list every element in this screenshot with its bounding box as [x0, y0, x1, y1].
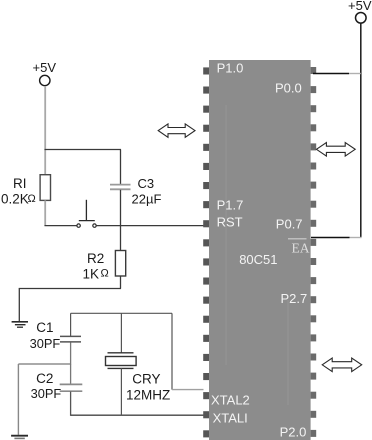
svg-text:XTAL2: XTAL2 [211, 393, 250, 408]
ground (crystal net, bottom) [11, 436, 28, 439]
bus arrow right upper (P0 port) [316, 143, 355, 157]
svg-text:0.2K: 0.2K [1, 192, 29, 207]
svg-text:CRY: CRY [132, 371, 160, 386]
svg-text:30PF: 30PF [30, 336, 61, 351]
IC right pins [311, 67, 317, 437]
wire crystal bottom vertical [120, 368, 122, 415]
wire ground drop vertical [18, 289, 20, 322]
svg-text:R2: R2 [87, 251, 104, 266]
wire P0.7 to VCC [311, 237, 362, 239]
resistor RI [40, 175, 50, 201]
svg-text:P1.0: P1.0 [217, 61, 244, 76]
IC U1 80C51 body [209, 60, 311, 440]
wire C1 bottom vertical [70, 343, 72, 365]
svg-text:Ω: Ω [28, 193, 36, 205]
resistor R2 [115, 251, 125, 277]
svg-text:+5V: +5V [33, 60, 57, 75]
bus arrow left (P1 port) [158, 124, 195, 137]
wire C2 bottom vertical [70, 392, 72, 416]
svg-text:RI: RI [13, 176, 27, 191]
pin label EA (active low) [288, 239, 310, 256]
svg-text:30PF: 30PF [31, 386, 62, 401]
svg-text:1K: 1K [83, 267, 100, 282]
svg-text:XTALI: XTALI [213, 411, 248, 426]
wire crystal top vertical [120, 313, 122, 353]
wire VCC right vertical [360, 23, 362, 238]
svg-text:C1: C1 [36, 320, 53, 335]
wire XTAL2 horizontal to pin [172, 389, 204, 391]
capacitor C2 [60, 384, 83, 391]
svg-text:P2.7: P2.7 [281, 291, 308, 306]
label C2 value [31, 371, 62, 401]
IC left pins [203, 67, 209, 437]
svg-text:P2.0: P2.0 [280, 425, 307, 440]
svg-text:P1.7: P1.7 [217, 198, 244, 213]
svg-text:C3: C3 [138, 176, 155, 191]
svg-text:80C51: 80C51 [239, 252, 277, 267]
svg-text:RST: RST [217, 215, 243, 230]
wire branch to C3 horizontal [45, 149, 122, 151]
wire P0.0 to VCC [313, 73, 361, 75]
wire RI to switch [45, 225, 77, 227]
ground (RST network) [12, 322, 28, 327]
label CRY value [126, 371, 170, 402]
wire XTAL2 branch vertical [171, 313, 173, 389]
wire XTAL1 bottom horizontal [71, 414, 204, 416]
pushbutton switch [77, 200, 96, 228]
wire C1 top vertical [70, 313, 72, 336]
svg-text:+5V: +5V [348, 0, 372, 13]
wire gnd branch vertical [17, 364, 19, 435]
wire VCC left vertical [44, 86, 46, 175]
wire C3 top vertical [120, 150, 122, 185]
svg-text:12MHZ: 12MHZ [126, 387, 170, 402]
svg-text:P0.0: P0.0 [275, 81, 302, 96]
capacitor C1 [60, 336, 81, 342]
wire R2 top vertical [120, 226, 122, 251]
svg-text:22µF: 22µF [132, 192, 162, 207]
svg-text:Ω: Ω [101, 268, 109, 280]
label C1 value [30, 320, 61, 351]
bus arrow right lower (P2 port) [322, 358, 362, 372]
capacitor C3 [110, 185, 131, 190]
wire R2 to ground horizontal [19, 288, 121, 290]
label R2 value [83, 251, 109, 282]
label RI value [1, 176, 36, 207]
wire RI bottom vertical [44, 200, 46, 226]
wire crystal net top horizontal [71, 312, 172, 314]
wire gnd branch horizontal [18, 363, 71, 365]
label C3 value [132, 176, 162, 207]
power +5V (right) [348, 0, 372, 23]
power +5V (left) [33, 60, 57, 86]
svg-text:C2: C2 [36, 371, 53, 386]
svg-text:EA: EA [292, 241, 310, 256]
wire R2 bottom vertical [120, 276, 122, 289]
crystal CRY [106, 353, 137, 369]
wire switch to RST pin [96, 225, 203, 227]
wire C2 top vertical [70, 364, 72, 385]
wire C3 bottom vertical [120, 190, 122, 226]
svg-text:P0.7: P0.7 [276, 217, 303, 232]
